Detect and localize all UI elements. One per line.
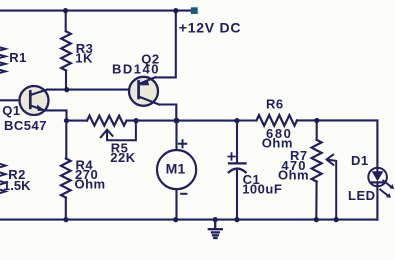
wire: base tap to Q1 bbox=[0, 99, 30, 101]
node: R3/collector junction bbox=[64, 87, 69, 92]
LED D1 body bbox=[368, 168, 387, 187]
wire: motor M1 bottom lead bbox=[175, 189, 177, 219]
LED D1 triangle bbox=[372, 171, 384, 181]
svg-text:100uF: 100uF bbox=[242, 182, 282, 197]
transistor Q2 emitter stroke bbox=[139, 77, 155, 83]
transistor Q2 collector stroke bbox=[139, 97, 159, 105]
transistor Q2 base bar bbox=[137, 82, 140, 99]
motor M1 body bbox=[157, 150, 196, 189]
wire: Q1 collector to Q2 base bbox=[47, 89, 139, 91]
svg-text:D1: D1 bbox=[351, 153, 369, 168]
wire: Q2 collector down to mid rail bbox=[159, 105, 176, 121]
resistor R4 bbox=[61, 159, 71, 198]
transistor Q2 (BD140 PNP) body bbox=[129, 77, 158, 106]
motor M1 plus mark bbox=[179, 140, 186, 147]
svg-text:1.5K: 1.5K bbox=[3, 178, 31, 193]
capacitor C1 plus mark bbox=[228, 153, 235, 160]
supply terminal square (+12V DC) bbox=[191, 7, 198, 14]
potentiometer R5 wiper arrowhead bbox=[101, 130, 113, 138]
svg-text:Q1: Q1 bbox=[2, 103, 20, 118]
wire: Q2 emitter to +12V rail bbox=[155, 11, 176, 78]
svg-text:+12V DC: +12V DC bbox=[179, 19, 241, 35]
wire: R7 top lead bbox=[316, 121, 318, 140]
wire: R3 top lead bbox=[65, 11, 67, 32]
transistor Q1 base bar bbox=[29, 92, 32, 108]
transistor Q1 collector stroke bbox=[30, 90, 47, 95]
wire: mid rail R5 to C1 bbox=[127, 120, 238, 122]
node: R7 wiper bottom junction bbox=[334, 217, 339, 222]
node: emitter/R5/R4 junction bbox=[64, 118, 69, 123]
potentiometer R5 body bbox=[87, 116, 127, 126]
potentiometer R7 wiper arm bbox=[328, 160, 337, 220]
potentiometer R7 wiper arrowhead bbox=[327, 155, 334, 165]
node: collector/motor junction bbox=[174, 118, 180, 124]
svg-text:M1: M1 bbox=[166, 161, 186, 177]
svg-text:Ohm: Ohm bbox=[75, 177, 106, 192]
node: R5 right terminal junction bbox=[134, 118, 139, 123]
svg-text:22K: 22K bbox=[110, 150, 135, 165]
wire: C1 top lead bbox=[236, 121, 238, 163]
wire: +12V top rail bbox=[0, 10, 176, 12]
wire: R4 bottom lead bbox=[65, 198, 67, 220]
svg-text:R1: R1 bbox=[9, 50, 27, 65]
resistor R1 bbox=[0, 47, 6, 77]
node: top rail / R3 junction bbox=[63, 8, 68, 13]
wire: R5 left lead bbox=[67, 120, 88, 122]
node: C1 bottom junction bbox=[234, 217, 239, 222]
wire: Q1 emitter run bbox=[45, 110, 67, 120]
svg-text:1K: 1K bbox=[75, 50, 93, 65]
potentiometer R5 wiper arm bbox=[107, 121, 136, 141]
node: top rail junction bbox=[173, 8, 178, 13]
resistor R6 bbox=[257, 115, 298, 126]
LED D1 cathode bar bbox=[372, 181, 383, 183]
wire: LED cathode lead to bus bbox=[376, 182, 378, 219]
svg-text:R6: R6 bbox=[266, 97, 284, 112]
node: C1 top junction bbox=[234, 118, 239, 123]
LED light arrow 1 bbox=[383, 181, 392, 188]
svg-text:BD140: BD140 bbox=[112, 62, 160, 77]
wire: R7 bottom lead bbox=[315, 182, 317, 220]
wire: bottom ground bus bbox=[0, 219, 377, 221]
node: R7 bottom junction bbox=[314, 217, 319, 222]
transistor Q1 emitter stroke bbox=[30, 106, 44, 111]
wire: motor M1 top lead bbox=[175, 121, 177, 150]
ground symbol bbox=[209, 220, 222, 238]
node: R6/R7 junction bbox=[314, 118, 319, 123]
transistor Q1 (BC547 NPN) body bbox=[20, 86, 49, 115]
wire: C1 bottom lead bbox=[236, 170, 238, 220]
LED light arrow 2 bbox=[380, 190, 389, 197]
resistor R3 bbox=[61, 31, 71, 70]
svg-text:Ohm: Ohm bbox=[278, 168, 309, 183]
wire: R6 right lead to LED corner bbox=[297, 120, 377, 167]
node: ground junction bbox=[213, 217, 218, 222]
capacitor C1 curved plate bbox=[229, 169, 246, 173]
svg-text:Ohm: Ohm bbox=[262, 136, 293, 151]
potentiometer R7 body bbox=[312, 140, 322, 182]
wire: R4 top lead bbox=[65, 121, 67, 159]
wire: LED anode lead inside bbox=[376, 168, 378, 172]
node: R4 bottom junction bbox=[63, 217, 68, 222]
svg-text:BC547: BC547 bbox=[4, 118, 47, 133]
node: motor bottom junction bbox=[173, 217, 178, 222]
wire: R6 left lead bbox=[237, 119, 257, 121]
wire: R3 bottom lead to collector node bbox=[65, 71, 67, 90]
wire: rail stub to supply terminal bbox=[176, 10, 191, 12]
transistor Q2 emitter arrowhead bbox=[139, 80, 149, 86]
transistor Q1 emitter arrowhead bbox=[37, 105, 46, 111]
svg-text:LED: LED bbox=[348, 188, 376, 203]
resistor R2 bbox=[0, 163, 6, 197]
motor M1 minus mark bbox=[181, 193, 186, 195]
capacitor C1 top plate bbox=[229, 162, 246, 164]
